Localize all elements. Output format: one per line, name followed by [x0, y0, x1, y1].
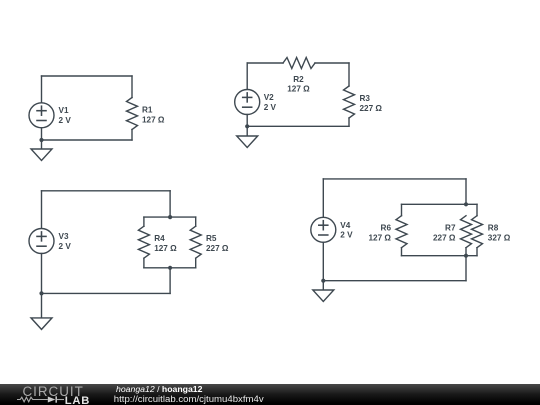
branch bottom wire	[402, 255, 478, 257]
svg-text:V2: V2	[264, 93, 274, 102]
wire	[348, 118, 350, 126]
wire to ground	[41, 140, 43, 149]
resistor R5	[190, 226, 201, 258]
wire	[323, 178, 466, 180]
wire	[465, 179, 467, 204]
wire to ground	[41, 293, 43, 318]
byline	[116, 385, 202, 394]
svg-text:R8: R8	[488, 224, 499, 233]
branch bottom wire	[144, 267, 196, 269]
wire	[169, 268, 171, 294]
svg-text:227 Ω: 227 Ω	[206, 244, 229, 253]
resistor R6	[396, 216, 407, 248]
ground	[31, 318, 52, 330]
footer bar	[0, 384, 540, 405]
svg-text:R5: R5	[206, 234, 217, 243]
node F	[464, 202, 468, 206]
svg-text:V1: V1	[59, 106, 69, 115]
resistor R8	[472, 216, 483, 248]
wire to ground	[246, 126, 248, 136]
resistor R4	[138, 226, 149, 258]
wire	[42, 190, 171, 192]
wire	[143, 217, 145, 226]
node E	[39, 291, 43, 295]
wire	[246, 115, 248, 127]
resistor R7	[461, 216, 472, 248]
svg-text:2 V: 2 V	[264, 103, 277, 112]
svg-text:2 V: 2 V	[59, 242, 72, 251]
ground	[313, 290, 334, 302]
wire	[41, 76, 43, 103]
node B	[245, 124, 249, 128]
wire	[131, 76, 133, 98]
resistor R3	[344, 86, 355, 118]
svg-text:R1: R1	[142, 106, 153, 115]
CircuitLab logo schematic doodle (resistor + diode)	[17, 395, 67, 405]
wire	[42, 75, 133, 77]
wire	[42, 139, 133, 141]
wire	[41, 128, 43, 140]
svg-text:2 V: 2 V	[59, 116, 72, 125]
svg-text:R2: R2	[293, 75, 304, 84]
svg-text:227 Ω: 227 Ω	[360, 104, 383, 113]
wire	[131, 130, 133, 141]
branch top wire	[402, 203, 478, 205]
wire	[143, 258, 145, 268]
CircuitLab logo text CIRCUIT	[23, 385, 84, 398]
wire	[476, 204, 478, 215]
svg-text:R7: R7	[445, 224, 456, 233]
wire	[476, 248, 478, 256]
svg-text:127 Ω: 127 Ω	[369, 234, 392, 243]
wire to ground	[322, 281, 324, 290]
ground	[237, 136, 258, 148]
logo diode	[48, 397, 56, 403]
svg-text:2 V: 2 V	[340, 231, 353, 240]
wire	[322, 179, 324, 217]
node G	[464, 254, 468, 258]
branch top wire	[144, 216, 196, 218]
wire	[195, 217, 197, 226]
voltage source V4	[311, 217, 336, 242]
wire	[195, 258, 197, 268]
resistor R2	[283, 58, 315, 69]
wire	[42, 292, 171, 294]
svg-text:127 Ω: 127 Ω	[142, 115, 165, 124]
wire	[247, 62, 283, 64]
ground	[31, 149, 52, 161]
svg-text:R3: R3	[360, 94, 371, 103]
logo text LAB	[65, 396, 90, 405]
wire	[322, 242, 324, 280]
wire	[246, 63, 248, 90]
svg-text:127 Ω: 127 Ω	[154, 244, 177, 253]
node D	[168, 266, 172, 270]
voltage source V1	[29, 103, 54, 128]
voltage source V2	[235, 90, 260, 115]
svg-text:R4: R4	[154, 234, 165, 243]
wire	[41, 254, 43, 294]
resistor R1	[127, 98, 138, 130]
wire	[41, 191, 43, 229]
node H	[321, 279, 325, 283]
svg-text:V3: V3	[59, 232, 69, 241]
wire	[169, 191, 171, 217]
wire	[401, 204, 403, 215]
url	[114, 395, 264, 405]
svg-text:127 Ω: 127 Ω	[287, 85, 310, 94]
node C	[168, 215, 172, 219]
voltage source V3	[29, 229, 54, 254]
svg-text:327 Ω: 327 Ω	[488, 234, 511, 243]
svg-text:227 Ω: 227 Ω	[433, 234, 456, 243]
logo wire and resistor zigzag	[17, 397, 48, 402]
wire	[315, 62, 349, 64]
wire	[323, 280, 466, 282]
svg-text:R6: R6	[381, 224, 392, 233]
wire	[348, 63, 350, 86]
node A	[39, 138, 43, 142]
svg-text:V4: V4	[340, 221, 350, 230]
wire	[247, 125, 349, 127]
wire	[401, 248, 403, 256]
wire	[465, 256, 467, 281]
wire	[465, 248, 467, 256]
